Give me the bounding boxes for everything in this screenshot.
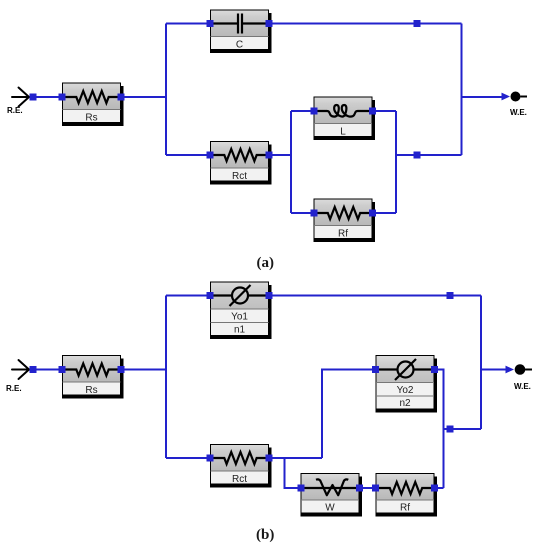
resistor Rct (a) [210, 142, 272, 185]
node square W right [356, 485, 363, 492]
wire W to Rf (b) [360, 487, 376, 489]
wire bottom branch to Rct (a) [166, 154, 210, 156]
wire Rf to right branch vertical (a) [373, 212, 397, 214]
svg-text:L: L [340, 127, 346, 138]
wire riser to Yo2 (b) [322, 370, 376, 459]
wire Rs to left junction (b) [121, 369, 166, 371]
svg-text:Yo2: Yo2 [397, 385, 414, 396]
svg-text:n2: n2 [399, 398, 411, 409]
node square C right [266, 20, 273, 27]
svg-text:R.E.: R.E. [7, 106, 23, 115]
wire right vertical (a) [461, 24, 463, 156]
wire Yo1 to right corner (b) [269, 295, 481, 297]
junction square top branch (a) [414, 20, 421, 27]
resistor Rct (b) [210, 445, 272, 488]
svg-text:W: W [325, 503, 335, 514]
node square Rs right (a) [118, 94, 125, 101]
wire left junction vertical (b) [165, 296, 167, 459]
node square Rf left (b) [372, 485, 379, 492]
node square Rs left (b) [59, 366, 66, 373]
svg-text:Rf: Rf [400, 503, 410, 514]
caption (b) [256, 527, 274, 544]
wire drop to W (b) [285, 458, 301, 488]
terminal R.E. (b) [6, 360, 29, 393]
svg-text:W.E.: W.E. [514, 382, 531, 391]
node square at R.E. (b) [30, 366, 37, 373]
junction square mid (b) [447, 426, 454, 433]
junction square bottom branch (a) [414, 152, 421, 159]
node square L right [369, 108, 376, 115]
svg-text:C: C [236, 40, 243, 51]
wire Rct to LRf branch (a) [269, 154, 291, 156]
node square Yo2 left [372, 366, 379, 373]
node square Rct left (a) [207, 152, 214, 159]
resistor Rs (b) [62, 356, 124, 399]
wire top branch to C (a) [166, 23, 210, 25]
resistor Rs (a) [62, 83, 124, 126]
svg-text:Rct: Rct [232, 171, 247, 182]
node square Rct right (a) [266, 152, 273, 159]
wire Rf out to riser (b) [435, 487, 444, 489]
wire C to right corner (a) [269, 23, 462, 25]
wire to L (a) [291, 110, 314, 112]
wire Rs to left junction (a) [121, 96, 166, 98]
arrowhead W.E. (a) [502, 93, 511, 101]
wire LRf left vertical (a) [290, 111, 292, 213]
node square Yo2 right [431, 366, 438, 373]
capacitor C [210, 10, 272, 53]
CPE Yo1 n1 [210, 282, 272, 339]
node square Rct left (b) [207, 455, 214, 462]
svg-text:W.E.: W.E. [510, 108, 527, 117]
resistor Rf (a) [314, 199, 376, 242]
wire Rct out to riser (b) [269, 457, 322, 459]
wire left junction vertical (a) [165, 24, 167, 156]
wire top branch to Yo1 (b) [166, 295, 210, 297]
svg-text:Rs: Rs [85, 113, 97, 124]
svg-text:n1: n1 [234, 325, 246, 336]
terminal R.E. (a) [7, 88, 29, 116]
node square Yo1 right [266, 292, 273, 299]
wire to Rf (a) [291, 212, 314, 214]
wire Yo2 out down (b) [435, 370, 444, 489]
wire bottom branch to Rct (b) [166, 457, 210, 459]
resistor Rf (b) [376, 474, 438, 517]
node square Yo1 left [207, 292, 214, 299]
node square Rct right (b) [266, 455, 273, 462]
junction square top branch (b) [447, 292, 454, 299]
wire LRf right vertical (a) [395, 111, 397, 213]
node square L left [311, 108, 318, 115]
wire branch out to right vertical (a) [396, 154, 462, 156]
terminal W.E. stub (a) [521, 96, 528, 98]
node square Rf right (b) [431, 485, 438, 492]
node square Rs left (a) [59, 94, 66, 101]
svg-text:Yo1: Yo1 [231, 312, 248, 323]
wire R.E. to Rs (a) [33, 96, 62, 98]
arrowhead W.E. (b) [506, 366, 515, 374]
wire L to right branch vertical (a) [373, 110, 397, 112]
node square at R.E. (a) [30, 94, 37, 101]
inductor L [314, 97, 376, 140]
node square W left [298, 485, 305, 492]
wire junction row (b) [444, 428, 482, 430]
svg-text:Rct: Rct [232, 474, 247, 485]
svg-text:Rf: Rf [338, 229, 348, 240]
terminal W.E. dot (a) [511, 92, 521, 102]
node square Rf right (a) [369, 210, 376, 217]
terminal W.E. dot (b) [515, 364, 526, 375]
node square Rs right (b) [118, 366, 125, 373]
wire right vertical (b) [480, 296, 482, 430]
node square C left [207, 20, 214, 27]
svg-text:R.E.: R.E. [6, 384, 22, 393]
terminal W.E. stub (b) [525, 369, 532, 371]
node square Rf left (a) [311, 210, 318, 217]
wire R.E. to Rs (b) [33, 369, 62, 371]
CPE Yo2 n2 [376, 356, 438, 413]
Warburg W [301, 474, 363, 517]
caption (a) [257, 255, 275, 272]
svg-text:Rs: Rs [85, 385, 97, 396]
wire to W.E. (b) [481, 369, 506, 371]
wire to W.E. (a) [462, 96, 503, 98]
